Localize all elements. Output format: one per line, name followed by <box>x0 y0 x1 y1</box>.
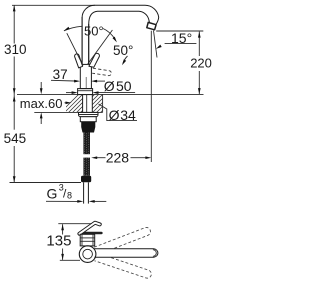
svg-text:G: G <box>47 186 58 202</box>
flexible hose upper part <box>83 133 90 155</box>
545 bottom extension line <box>10 182 82 184</box>
svg-text:50: 50 <box>116 78 132 94</box>
svg-text:135: 135 <box>46 233 71 250</box>
15deg underline <box>165 43 197 45</box>
135 bottom extension line <box>60 259 80 261</box>
svg-text:37: 37 <box>53 67 68 82</box>
body cylinder <box>80 64 91 88</box>
50deg dimension arc right part <box>103 29 115 40</box>
flexible hose lower part <box>83 158 90 176</box>
plan spout arm <box>94 249 158 257</box>
dia34 label + leader <box>99 104 138 121</box>
shank through counter <box>82 94 84 112</box>
50deg angle left radial line <box>67 33 83 65</box>
swivel collar inner circle <box>83 249 93 259</box>
black tail block <box>81 122 95 133</box>
svg-text:50°: 50° <box>113 43 133 58</box>
50deg left arrowhead <box>64 27 70 31</box>
aerator body <box>147 22 156 29</box>
svg-text:50°: 50° <box>84 23 104 38</box>
228 dimension <box>97 157 106 159</box>
spout top extension line <box>12 4 95 6</box>
spout outer outline <box>82 5 159 64</box>
swivel collar outer circle <box>79 246 96 263</box>
riser tube <box>81 17 83 64</box>
washer under counter <box>79 112 99 116</box>
arm tip inner line <box>153 250 156 257</box>
svg-text:310: 310 <box>4 42 27 57</box>
svg-text:max.60: max.60 <box>20 96 63 111</box>
dashed swivel arm upper <box>94 226 151 255</box>
plan lever blade <box>79 223 99 234</box>
spout inner outline <box>89 11 150 64</box>
body cap seam <box>85 77 87 89</box>
15deg arrow <box>156 45 162 49</box>
svg-text:8: 8 <box>67 191 72 201</box>
lever right position <box>89 53 100 67</box>
310/545 dimension line <box>13 5 15 43</box>
135 dimension line <box>62 224 64 234</box>
counter slab bottom line <box>34 111 102 113</box>
135 top extension line <box>58 223 95 225</box>
svg-text:Ø: Ø <box>109 107 120 123</box>
lever left position <box>75 54 83 68</box>
50deg angle right radial line <box>87 30 112 65</box>
220 dimension line <box>198 32 200 56</box>
plan body <box>80 234 95 246</box>
svg-text:545: 545 <box>4 131 27 146</box>
max.60 dim arrows <box>40 82 42 89</box>
220 top extension line <box>156 30 203 32</box>
outlet 15deg axis line <box>154 31 158 58</box>
counter slab right edge <box>102 94 104 112</box>
lower 50deg leader <box>123 56 128 64</box>
G3/8 dimension leader <box>46 200 78 202</box>
svg-text:220: 220 <box>190 56 212 71</box>
plan lever dome bar <box>80 232 103 235</box>
deck surface line <box>17 93 204 95</box>
50deg right arrowhead <box>113 37 117 43</box>
connection tail pipes <box>83 182 85 203</box>
svg-text:Ø: Ø <box>104 78 115 94</box>
mounting nut <box>80 117 96 122</box>
lever dashed open position <box>92 68 111 75</box>
svg-text:228: 228 <box>106 150 130 166</box>
hose end fitting <box>81 176 91 183</box>
base flange <box>78 89 93 95</box>
outlet vertical extension line <box>150 31 152 162</box>
50deg dimension arc left part <box>64 26 82 31</box>
counter hatching <box>60 94 119 113</box>
svg-text:34: 34 <box>120 107 136 123</box>
dashed swivel arm lower <box>94 253 152 279</box>
max.60 leader arrow <box>65 102 68 104</box>
